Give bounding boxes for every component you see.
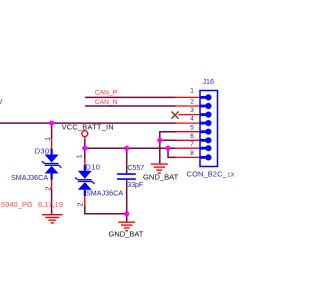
- wire pin6 net: [160, 139, 176, 141]
- wire stub pin 1: [176, 96, 201, 98]
- wire stub pin 8: [176, 156, 201, 158]
- ground GND_BAT below C557: [118, 222, 135, 231]
- wire net pin4 horizontal: [0, 122, 176, 124]
- svg-text:5940_PG6,17,19: 5940_PG6,17,19: [1, 200, 63, 209]
- connector J16 pin 3: [200, 113, 207, 116]
- svg-text:4: 4: [190, 116, 194, 123]
- svg-text:GND_BAT: GND_BAT: [143, 173, 179, 182]
- wire D30 bottom to ground: [51, 189, 53, 214]
- svg-text:1: 1: [190, 88, 194, 95]
- svg-text:SMAJ36CA: SMAJ36CA: [11, 173, 48, 182]
- wire C557 ground stub: [126, 214, 128, 222]
- junction bottom wire at C557: [124, 211, 129, 216]
- svg-text:1: 1: [74, 154, 83, 158]
- connector J16 pin 6: [200, 139, 207, 142]
- wire CAN_P to pin 1: [85, 96, 176, 98]
- wire D10 bottom: [85, 205, 127, 213]
- junction bus at C557: [124, 146, 129, 151]
- diode D30: [42, 139, 62, 189]
- wire stub pin 7: [176, 147, 201, 149]
- svg-text:CAN_N: CAN_N: [95, 99, 118, 106]
- svg-text:7: 7: [190, 141, 194, 148]
- svg-text:1: 1: [43, 137, 52, 141]
- wire stub pin 6: [176, 139, 201, 141]
- svg-text:SMAJ36CA: SMAJ36CA: [86, 189, 123, 198]
- svg-text:CAN_P: CAN_P: [95, 90, 118, 97]
- diode D10: [75, 148, 95, 205]
- svg-text:D10: D10: [86, 162, 101, 171]
- wire bus pin7 row: [85, 147, 176, 149]
- junction pin6 tap: [157, 138, 162, 143]
- wire stub pin 3: [178, 114, 200, 116]
- wire VCC port down to bus: [84, 139, 86, 148]
- svg-text:GND_BAT: GND_BAT: [109, 230, 144, 239]
- junction bus at pin8 branch: [165, 146, 170, 151]
- port circle VCC_BATT_IN: [82, 131, 88, 137]
- connector J16 pin 5: [200, 130, 207, 133]
- svg-text:VCC_BATT_IN: VCC_BATT_IN: [62, 122, 114, 131]
- connector J16 pin 1: [200, 96, 207, 99]
- connector J16 pin 4: [200, 122, 207, 125]
- svg-text:C557: C557: [127, 165, 144, 172]
- svg-text:8: 8: [190, 150, 194, 157]
- connector J16 body: [200, 91, 218, 167]
- svg-text:3: 3: [190, 107, 194, 114]
- ground below D30: [42, 215, 63, 223]
- ground GND_BAT near connector: [151, 164, 168, 173]
- svg-text:6: 6: [190, 133, 194, 140]
- svg-text:D30: D30: [35, 146, 50, 155]
- connector J16 pin 7: [200, 147, 207, 150]
- svg-text:2: 2: [190, 99, 194, 106]
- svg-text:J16: J16: [203, 78, 214, 86]
- wire D30 top vertical: [51, 123, 53, 139]
- connector J16 pin 2: [200, 105, 207, 108]
- no-connect X on pin 3: [171, 112, 178, 119]
- junction on pin4 wire at D30: [49, 121, 54, 126]
- wire stub pin 2: [176, 105, 201, 107]
- svg-text:2: 2: [76, 203, 85, 207]
- connector J16 pin 8: [200, 156, 207, 159]
- svg-text:33pF: 33pF: [127, 182, 143, 189]
- wire CAN_N to pin 2: [85, 105, 176, 107]
- capacitor C557: [117, 148, 136, 214]
- svg-text:5: 5: [190, 124, 194, 131]
- wire pin8 branch: [168, 148, 176, 157]
- wire stub pin 4: [176, 122, 201, 124]
- wire stub pin 5: [176, 131, 201, 133]
- junction bus at VCC/D10: [82, 146, 87, 151]
- wire pin5 net: [160, 132, 176, 164]
- svg-text:V: V: [0, 99, 3, 106]
- wire VCC port red stub: [84, 137, 86, 140]
